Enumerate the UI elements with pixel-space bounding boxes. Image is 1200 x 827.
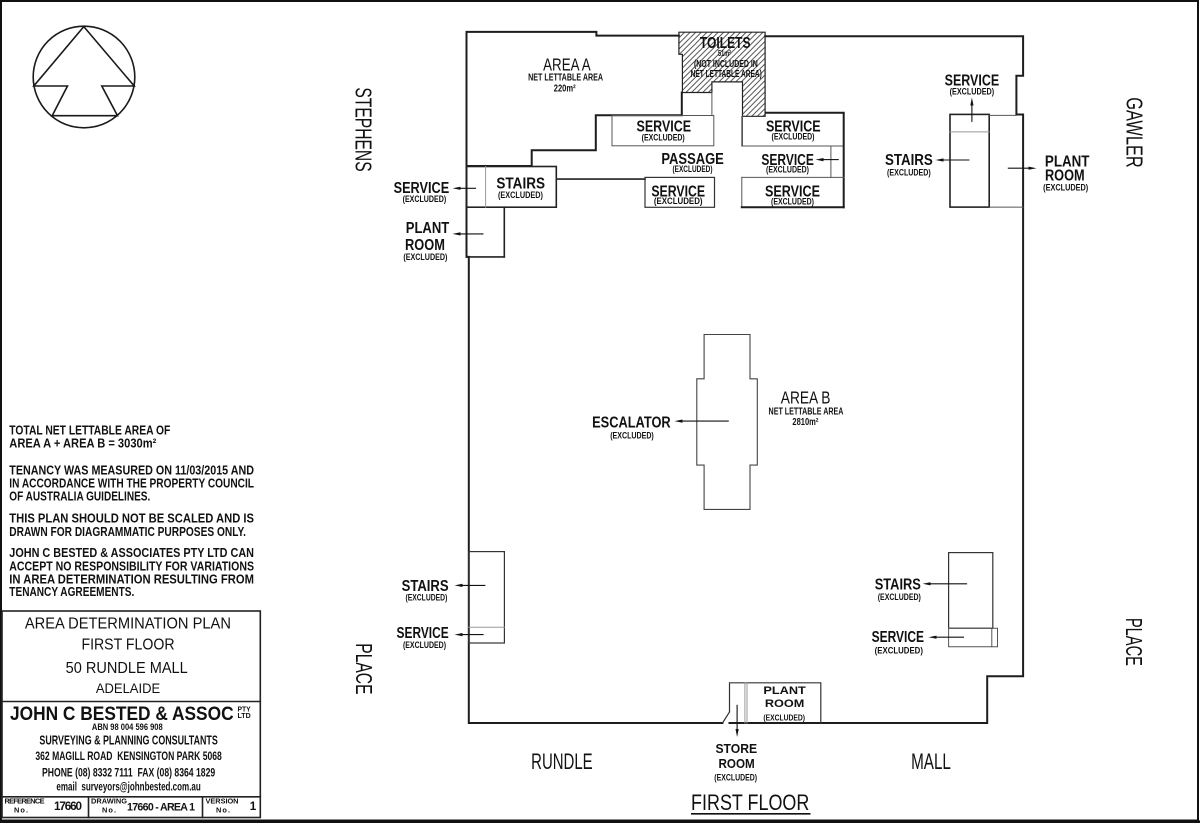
svg-text:PLANT: PLANT xyxy=(406,220,450,237)
service room E bottom wall xyxy=(742,206,844,208)
service strip bottom-right stairs xyxy=(949,628,998,647)
notes text block xyxy=(9,423,254,599)
svg-text:FIRST FLOOR: FIRST FLOOR xyxy=(81,636,174,653)
north point arrow xyxy=(34,27,134,116)
arrow service bottom-right xyxy=(937,636,965,638)
arrow stairs bottom-right xyxy=(931,583,968,585)
escalator outline xyxy=(697,335,758,510)
svg-text:ADELAIDE: ADELAIDE xyxy=(96,680,160,696)
store/plant divider xyxy=(745,683,747,723)
north point logo circle xyxy=(33,26,135,128)
svg-text:ROOM: ROOM xyxy=(719,756,755,771)
svg-text:AREA DETERMINATION PLAN: AREA DETERMINATION PLAN xyxy=(25,615,231,632)
svg-text:(EXCLUDED): (EXCLUDED) xyxy=(878,592,921,603)
arrow escalator xyxy=(683,420,729,422)
stairs box top-right xyxy=(950,114,989,207)
arrow service bottom-left xyxy=(463,634,484,636)
svg-text:(EXCLUDED): (EXCLUDED) xyxy=(610,431,654,442)
svg-text:(EXCLUDED): (EXCLUDED) xyxy=(714,772,757,782)
svg-text:17660: 17660 xyxy=(54,800,82,813)
svg-text:FIRST FLOOR: FIRST FLOOR xyxy=(691,790,809,815)
store room door swing xyxy=(723,712,730,723)
svg-text:ABN 98 004 596 908: ABN 98 004 596 908 xyxy=(92,722,163,732)
svg-text:RUNDLE: RUNDLE xyxy=(531,749,593,774)
svg-text:(EXCLUDED): (EXCLUDED) xyxy=(654,196,703,207)
svg-text:(EXCLUDED): (EXCLUDED) xyxy=(771,197,814,208)
svg-text:(EXCLUDED): (EXCLUDED) xyxy=(673,164,713,175)
svg-text:(EXCLUDED): (EXCLUDED) xyxy=(405,592,447,603)
svg-text:REFERENCE: REFERENCE xyxy=(5,797,45,806)
svg-text:(EXCLUDED): (EXCLUDED) xyxy=(887,168,931,179)
svg-text:TENANCY AGREEMENTS.: TENANCY AGREEMENTS. xyxy=(9,584,134,599)
svg-text:(EXCLUDED): (EXCLUDED) xyxy=(403,252,447,263)
svg-text:AREA B: AREA B xyxy=(781,388,831,408)
svg-text:ESCALATOR: ESCALATOR xyxy=(592,415,671,432)
svg-text:DRAWN FOR DIAGRAMMATIC PURPOSE: DRAWN FOR DIAGRAMMATIC PURPOSES ONLY. xyxy=(9,524,246,539)
svg-text:LTD: LTD xyxy=(238,713,251,720)
corridor wall stairs to service B xyxy=(556,178,645,180)
arrow plant room left xyxy=(461,233,484,235)
svg-text:(EXCLUDED): (EXCLUDED) xyxy=(403,194,447,205)
svg-text:1: 1 xyxy=(250,800,257,813)
svg-text:SERVICE: SERVICE xyxy=(872,629,924,646)
service room B (bottom-left of cluster) xyxy=(645,177,715,207)
stairs box bottom-right xyxy=(949,553,993,629)
svg-text:No.: No. xyxy=(216,806,230,815)
plant/store room box bottom-middle xyxy=(730,683,821,723)
narrow service strip divider (left stairs) xyxy=(485,167,487,208)
svg-text:2810m²: 2810m² xyxy=(792,417,819,428)
arrow service left xyxy=(461,187,477,189)
svg-text:MALL: MALL xyxy=(911,749,951,774)
plant room right walls xyxy=(989,115,1023,207)
svg-text:PLACE: PLACE xyxy=(1121,618,1147,666)
svg-text:SURVEYING & PLANNING CONSULTAN: SURVEYING & PLANNING CONSULTANTS xyxy=(39,732,217,747)
stairs box bottom-left xyxy=(469,552,505,643)
stairs box top-left xyxy=(467,167,557,208)
svg-text:GAWLER: GAWLER xyxy=(1122,97,1148,168)
svg-text:STORE: STORE xyxy=(715,741,757,756)
svg-text:362 MAGILL ROAD KENSINGTON PA: 362 MAGILL ROAD KENSINGTON PARK 5068 xyxy=(35,749,222,763)
svg-text:DRAWING: DRAWING xyxy=(91,797,127,806)
svg-text:AREA A: AREA A xyxy=(543,55,591,75)
svg-text:(EXCLUDED): (EXCLUDED) xyxy=(642,133,685,144)
area A bottom boundary wall xyxy=(467,93,682,167)
svg-text:No.: No. xyxy=(14,806,28,815)
svg-text:(EXCLUDED): (EXCLUDED) xyxy=(875,645,923,656)
svg-text:(EXCLUDED): (EXCLUDED) xyxy=(766,165,809,176)
svg-text:PHONE (08) 8332 7111 FAX (08): PHONE (08) 8332 7111 FAX (08) 8364 1829 xyxy=(42,766,215,780)
svg-text:(EXCLUDED): (EXCLUDED) xyxy=(772,131,815,142)
svg-text:NET LETTABLE AREA): NET LETTABLE AREA) xyxy=(691,69,762,80)
svg-text:NET LETTABLE AREA: NET LETTABLE AREA xyxy=(769,406,844,417)
svg-text:220m²: 220m² xyxy=(554,83,576,94)
svg-text:ROOM: ROOM xyxy=(765,698,805,710)
plant room left walls xyxy=(467,207,505,257)
service D band dividers xyxy=(742,146,844,207)
svg-text:(EXCLUDED): (EXCLUDED) xyxy=(1043,183,1088,194)
svg-text:No.: No. xyxy=(102,806,116,815)
title block box xyxy=(2,611,260,818)
svg-text:(EXCLUDED): (EXCLUDED) xyxy=(498,190,543,201)
svg-text:50 RUNDLE MALL: 50 RUNDLE MALL xyxy=(66,660,188,677)
arrow service room D xyxy=(824,159,839,161)
service divider top-right stairs xyxy=(950,131,989,133)
svg-text:17660 - AREA 1: 17660 - AREA 1 xyxy=(127,802,195,814)
service divider bottom-left stairs xyxy=(469,626,505,628)
arrow stairs bottom-left xyxy=(463,584,486,586)
svg-text:STEPHENS: STEPHENS xyxy=(351,87,377,171)
arrow plant room right xyxy=(1008,167,1029,169)
svg-text:VERSION: VERSION xyxy=(206,797,239,806)
svg-text:(EXCLUDED): (EXCLUDED) xyxy=(403,640,446,651)
arrow service top-right xyxy=(971,106,973,122)
toilets hatched block xyxy=(679,32,765,116)
service room A (top-left of cluster) xyxy=(612,116,714,146)
svg-text:(EXCLUDED): (EXCLUDED) xyxy=(763,713,805,723)
svg-text:AREA A + AREA B = 3030m²: AREA A + AREA B = 3030m² xyxy=(9,435,156,450)
svg-text:NET LETTABLE AREA: NET LETTABLE AREA xyxy=(528,73,603,84)
service room C (right of toilets) xyxy=(742,116,844,146)
reference row xyxy=(5,797,257,815)
svg-text:PLANT: PLANT xyxy=(763,685,806,697)
svg-text:51m²: 51m² xyxy=(718,48,731,58)
svg-text:OF AUSTRALIA GUIDELINES.: OF AUSTRALIA GUIDELINES. xyxy=(9,489,150,504)
svg-text:(EXCLUDED): (EXCLUDED) xyxy=(950,86,995,97)
arrow stairs right xyxy=(944,159,970,161)
svg-text:PLACE: PLACE xyxy=(351,643,377,694)
svg-text:email surveyors@johnbested.co: email surveyors@johnbested.com.au xyxy=(56,780,200,794)
passage notch walls below toilets xyxy=(712,93,743,147)
building outer walls xyxy=(467,32,1024,723)
arrow store room xyxy=(736,705,738,729)
